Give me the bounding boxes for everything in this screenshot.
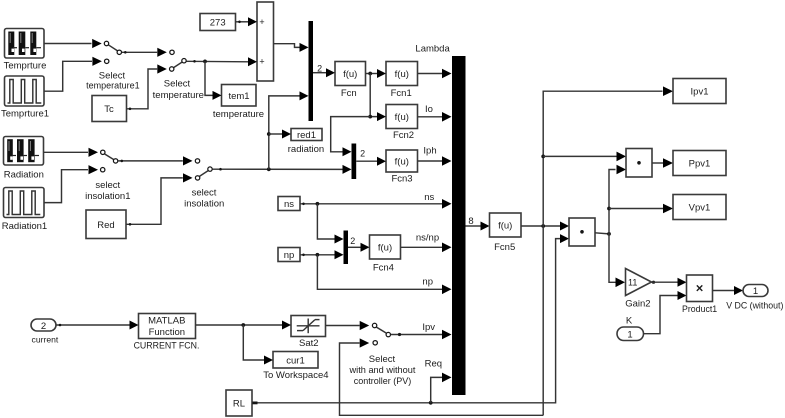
- wire switch4 out to Mux2 radiation: [213, 165, 352, 174]
- svg-text:+: +: [259, 17, 264, 27]
- svg-text:Tc: Tc: [104, 104, 114, 115]
- fcn block Fcn5: [490, 213, 522, 237]
- wire Mux3 to Fcn4 with label 2: [348, 236, 370, 252]
- wire Fcn to Fcn1: [366, 69, 387, 78]
- svg-text:current: current: [32, 335, 59, 345]
- svg-text:Select: Select: [369, 354, 396, 365]
- display block Vpv1: [673, 195, 726, 220]
- svg-text:Ipv1: Ipv1: [691, 87, 709, 98]
- fcn block Fcn2: [386, 105, 418, 129]
- svg-text:Req: Req: [425, 358, 442, 369]
- manual switch Select temperature: [157, 48, 186, 74]
- goto block tem1: [222, 85, 257, 107]
- fcn block Fcn3: [386, 150, 418, 172]
- svg-text:MATLAB: MATLAB: [148, 315, 185, 326]
- svg-text:f(u): f(u): [395, 157, 409, 168]
- wire Radiation to switch3: [44, 151, 89, 153]
- svg-text:2: 2: [317, 64, 322, 74]
- svg-text:temperature: temperature: [153, 90, 204, 101]
- svg-text:tem1: tem1: [228, 91, 249, 102]
- goto block ns: [278, 197, 300, 211]
- mux Mux1: [309, 21, 314, 121]
- input port current: [31, 319, 56, 332]
- wire switch3 out to switch4: [118, 160, 183, 163]
- svg-text:f(u): f(u): [343, 69, 357, 80]
- wire Tc to switch2: [127, 69, 158, 110]
- wire Mux1 to Fcn with label 2: [313, 64, 335, 78]
- svg-text:Ipv: Ipv: [422, 322, 435, 333]
- svg-text:Gain2: Gain2: [625, 299, 650, 310]
- svg-text:insolation1: insolation1: [85, 191, 130, 202]
- svg-text:Sat2: Sat2: [299, 338, 319, 349]
- wire P product to Ppv1: [652, 158, 673, 168]
- svg-text:ns: ns: [424, 192, 434, 203]
- junction to red1: [267, 130, 291, 139]
- wire np to Mux3: [300, 250, 344, 259]
- svg-text:2: 2: [360, 149, 365, 159]
- saturation block Sat2: [291, 316, 326, 337]
- junction radiation vertical: [267, 91, 309, 171]
- svg-text:Select: Select: [164, 79, 191, 90]
- output port V DC: [743, 285, 768, 298]
- svg-text:Fcn3: Fcn3: [391, 174, 412, 185]
- junction RL wire to Req input: [429, 373, 452, 405]
- svg-text:2: 2: [41, 321, 46, 332]
- to workspace block cur1: [273, 352, 318, 369]
- wire Fcn4 to big mux ns/np: [401, 243, 452, 253]
- svg-text:273: 273: [210, 18, 226, 29]
- mux Mux3: [344, 231, 349, 265]
- mux Mux2: [352, 144, 357, 180]
- svg-text:np: np: [422, 276, 433, 287]
- svg-text:Ppv1: Ppv1: [689, 159, 711, 170]
- svg-text:Radiation1: Radiation1: [2, 221, 47, 232]
- source block Temprture1: [5, 76, 45, 106]
- product block dot (V calc): [569, 218, 595, 246]
- wire Fcn3 to big mux Iph: [418, 156, 452, 166]
- wire switch2 out to Sum: [187, 57, 258, 66]
- matlab function block: [139, 314, 196, 339]
- wire Ipv feedback bottom to switch5: [340, 343, 544, 415]
- wire Mux2 to Fcn3 with label 2: [356, 149, 386, 166]
- svg-text:Temprture1: Temprture1: [1, 108, 49, 119]
- wire big mux to Fcn5 with label 8: [466, 216, 490, 230]
- goto block np: [278, 248, 300, 262]
- junction to Vpv1: [607, 204, 673, 214]
- constant block Red: [86, 210, 126, 239]
- constant block 273: [200, 14, 236, 31]
- svg-text:Fcn2: Fcn2: [393, 130, 414, 141]
- sum block Sum: [257, 2, 274, 81]
- wire Temprture1 to switch: [44, 61, 92, 91]
- wire junction down to cur1: [243, 325, 273, 365]
- display block Ppv1: [673, 151, 726, 176]
- svg-text:+: +: [259, 57, 264, 67]
- svg-text:CURRENT FCN.: CURRENT FCN.: [134, 341, 200, 351]
- svg-text:insolation: insolation: [184, 198, 224, 209]
- wire junction down to Fcn2 and Mux2: [331, 74, 386, 157]
- svg-text:ns/np: ns/np: [416, 232, 439, 243]
- svg-text:Vpv1: Vpv1: [689, 203, 711, 214]
- source block Radiation: [4, 137, 44, 166]
- junction to tem1: [203, 60, 221, 100]
- svg-text:select: select: [95, 180, 120, 191]
- wire Radiation1 to switch3: [44, 170, 88, 203]
- wire Ipv vertical down to feedback: [542, 226, 544, 415]
- manual switch select insolation1: [89, 148, 118, 175]
- svg-text:Product1: Product1: [682, 304, 717, 314]
- svg-text:Radiation: Radiation: [4, 169, 44, 180]
- svg-text:V DC (without): V DC (without): [726, 301, 783, 311]
- junction ns down to Mux3: [316, 202, 344, 244]
- svg-text:8: 8: [468, 216, 473, 227]
- svg-text:temperature: temperature: [213, 109, 264, 120]
- wire Sat2 to switch5: [326, 325, 360, 327]
- svg-text:Lambda: Lambda: [415, 43, 450, 54]
- wire MATLAB fcn to Sat2: [196, 321, 292, 330]
- svg-text:Fcn1: Fcn1: [391, 88, 412, 99]
- wire switch5 out to big mux Ipv: [391, 330, 452, 340]
- junction Ipv to Ppv product: [541, 152, 626, 162]
- manual switch Select temperature1: [92, 39, 121, 66]
- svg-text:controller (PV): controller (PV): [354, 376, 412, 386]
- svg-text:ns: ns: [284, 199, 294, 210]
- svg-text:f(u): f(u): [498, 221, 512, 232]
- goto block red1: [291, 129, 322, 142]
- fcn block Fcn1: [386, 62, 418, 86]
- wire Temprture to switch: [44, 43, 92, 45]
- svg-text:K: K: [626, 315, 633, 326]
- wire Sum to Mux1: [274, 43, 309, 52]
- svg-text:Iph: Iph: [423, 145, 436, 156]
- constant block RL: [226, 390, 252, 416]
- wire switch1 out to switch2: [122, 51, 157, 54]
- svg-text:Io: Io: [425, 104, 433, 115]
- wire current port to MATLAB fcn: [56, 321, 139, 330]
- source block Temprture: [5, 29, 45, 59]
- wire 273 to Sum: [236, 17, 258, 26]
- svg-text:1: 1: [627, 330, 632, 341]
- svg-text:1: 1: [753, 286, 758, 297]
- wire ns to big mux: [300, 199, 452, 209]
- junction np down to big mux: [316, 253, 452, 294]
- svg-text:red1: red1: [297, 130, 316, 141]
- fcn block Fcn4: [370, 235, 401, 259]
- svg-text:Fcn: Fcn: [341, 88, 357, 99]
- svg-text:select: select: [192, 188, 217, 199]
- svg-text:×: ×: [696, 281, 704, 296]
- constant oval K: [617, 327, 644, 341]
- svg-text:cur1: cur1: [286, 356, 304, 367]
- svg-text:temperature1: temperature1: [86, 81, 140, 91]
- product block Product1: [687, 275, 713, 302]
- constant block Tc: [92, 96, 127, 122]
- svg-text:with and without: with and without: [349, 365, 416, 375]
- svg-text:radiation: radiation: [288, 144, 324, 155]
- svg-text:f(u): f(u): [395, 69, 409, 80]
- svg-text:Red: Red: [97, 220, 114, 231]
- wire RL to Req and product: [252, 234, 569, 404]
- svg-text:f(u): f(u): [378, 243, 392, 254]
- svg-text:Fcn4: Fcn4: [373, 262, 394, 273]
- wire Fcn1 to big mux Lambda: [418, 69, 452, 79]
- wire Fcn2 to big mux Io: [418, 112, 452, 122]
- svg-text:11: 11: [628, 277, 637, 287]
- source block Radiation1: [4, 188, 45, 218]
- manual switch select insolation: [183, 156, 212, 182]
- big mux Mux4: [452, 56, 466, 395]
- manual switch Select with and without controller: [360, 321, 391, 348]
- wire Red to switch4: [126, 178, 183, 226]
- svg-text:To Workspace4: To Workspace4: [263, 370, 328, 381]
- wire Gain2 to Product1: [652, 278, 687, 287]
- product block dot (P calc): [626, 149, 652, 178]
- svg-text:np: np: [284, 250, 295, 261]
- svg-text:Fcn5: Fcn5: [494, 242, 515, 253]
- wire Fcn5 to product1 dot: [521, 222, 569, 231]
- svg-text:Temprture: Temprture: [4, 60, 47, 71]
- fcn block Fcn: [335, 62, 366, 86]
- svg-text:f(u): f(u): [395, 112, 409, 123]
- wire product out to junction vertical: [595, 165, 626, 287]
- wire Product1 to out port: [713, 286, 744, 295]
- wire K to Product1: [644, 291, 687, 334]
- svg-text:2: 2: [350, 236, 355, 246]
- gain block Gain2: [626, 269, 652, 296]
- svg-text:RL: RL: [233, 399, 245, 410]
- display block Ipv1: [673, 79, 726, 104]
- wire Ipv vertical long: [543, 86, 673, 226]
- svg-text:Function: Function: [149, 327, 185, 338]
